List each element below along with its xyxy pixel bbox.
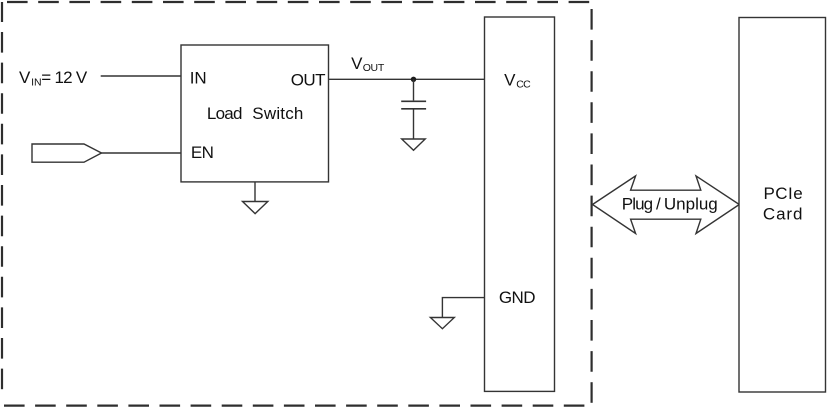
wire junction to capacitor (413, 79, 415, 100)
wire capacitor to ground (413, 110, 415, 140)
svg-text:LoadSwitch: LoadSwitch (207, 104, 304, 123)
PCIe card box (739, 18, 826, 393)
wire VIN to IN (101, 75, 181, 77)
ground under capacitor (402, 139, 426, 150)
capacitor C1 (401, 101, 426, 109)
wire GND pin to ground (442, 298, 484, 318)
svg-text:Card: Card (763, 205, 803, 224)
svg-text:Plug /Unplug: Plug /Unplug (622, 194, 718, 213)
dashed enclosure border left (1, 2, 3, 397)
svg-text:GND: GND (499, 288, 535, 307)
dashed enclosure border right (590, 2, 592, 406)
junction node at VOUT (411, 77, 416, 82)
svg-text:EN: EN (191, 143, 214, 162)
dashed enclosure border bottom (2, 405, 588, 407)
dashed enclosure border top (2, 1, 592, 3)
wire OUT to VCC (329, 78, 485, 80)
svg-text:VIN= 12 V: VIN= 12 V (19, 68, 88, 88)
wire load switch to ground (254, 182, 256, 202)
load switch U1 box (181, 45, 329, 182)
connector J1 box (Vcc / GND) (485, 17, 555, 391)
svg-text:PCIe: PCIe (764, 184, 804, 203)
svg-text:IN: IN (190, 69, 207, 88)
svg-text:OUT: OUT (291, 70, 325, 89)
EN input flag connector (32, 144, 102, 162)
ground at GND pin (430, 318, 454, 329)
plug/unplug double arrow (593, 176, 740, 234)
wire flag to EN (102, 152, 182, 154)
ground under load switch (243, 202, 268, 214)
